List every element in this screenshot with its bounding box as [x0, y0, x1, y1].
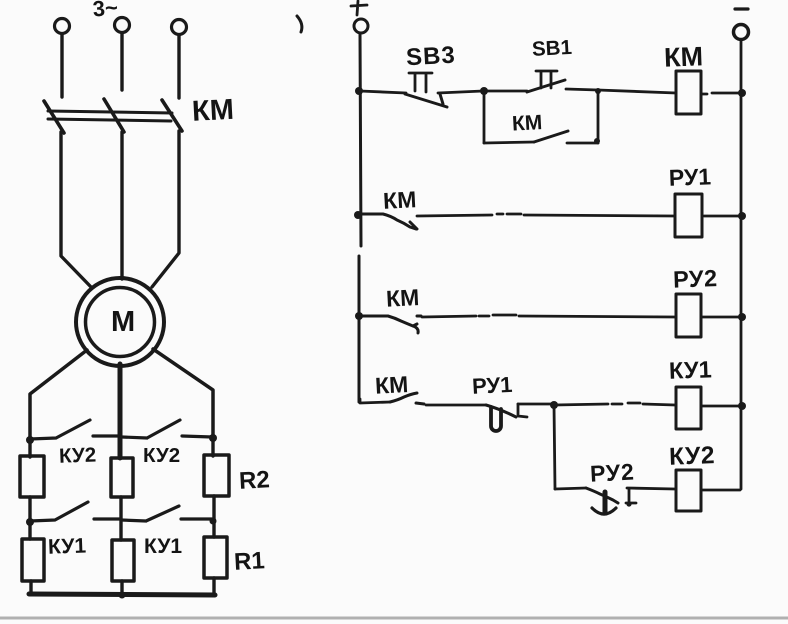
- svg-text:РУ1: РУ1: [668, 163, 711, 190]
- node left KU1: [26, 518, 34, 526]
- svg-text:КМ: КМ: [385, 284, 420, 312]
- label KM (rung2 contact): [382, 186, 417, 214]
- wire columns to bottom bus: [31, 578, 214, 595]
- contact RU1 fixed hook: [518, 404, 527, 417]
- svg-text:КМ: КМ: [382, 186, 417, 214]
- contact RU2 delay actuator: [603, 492, 608, 513]
- terminal L2: [115, 18, 130, 33]
- svg-text:КМ: КМ: [191, 94, 234, 128]
- node right KU2: [209, 434, 217, 442]
- wire rung4 d: [554, 403, 675, 405]
- contactor KM pole 3 blade: [162, 100, 182, 131]
- label KM (aux contact): [511, 111, 542, 136]
- wire rung5 b: [627, 488, 675, 489]
- wire rung1 c: [484, 90, 527, 93]
- wire rung2 a: [417, 214, 675, 216]
- label RU1 (delay contact): [471, 372, 513, 399]
- wire left rail: [359, 33, 361, 402]
- svg-text:РУ1: РУ1: [471, 372, 513, 399]
- coil KU2: [676, 470, 701, 511]
- wire rung1 e: [598, 90, 676, 93]
- contact KM rung4: [390, 393, 424, 404]
- label KU2 (left): [59, 443, 97, 467]
- wire rung1 b: [438, 91, 483, 93]
- node rung3 right: [738, 313, 746, 321]
- coil KM: [676, 71, 701, 114]
- wire right rail: [740, 40, 743, 489]
- node bottom middle: [119, 592, 126, 599]
- wire motor to right column: [153, 349, 213, 440]
- node rung2 right: [738, 212, 746, 220]
- contact RU1 delay blade: [486, 405, 516, 417]
- svg-text:КУ2: КУ2: [143, 444, 180, 467]
- node rung1 left: [355, 87, 363, 95]
- pushbutton SB1 contact blade: [527, 80, 565, 92]
- wire rung4 b: [426, 404, 486, 407]
- svg-text:РУ2: РУ2: [673, 265, 718, 293]
- svg-text:КУ2: КУ2: [669, 442, 716, 471]
- resistor R1 (left): [22, 539, 44, 581]
- wire branch down left: [483, 91, 486, 143]
- contact KU2 (middle): [122, 420, 212, 438]
- node rung4 right: [738, 402, 746, 410]
- coil RU1: [675, 194, 702, 237]
- label − (polarity): [735, 7, 748, 10]
- wire rung4 a: [360, 399, 390, 403]
- label SB1: [531, 36, 572, 61]
- contact KU2 (left): [30, 420, 119, 439]
- wire rung3 b: [701, 316, 742, 319]
- label + (polarity): [351, 1, 367, 15]
- wire motor to middle column: [118, 364, 123, 458]
- wire rung2 b: [704, 215, 742, 218]
- label SB3: [405, 42, 456, 72]
- svg-text:R1: R1: [233, 547, 265, 576]
- wire rung4 c: [518, 403, 553, 406]
- label KM (rung3 contact): [385, 284, 420, 312]
- wire L1 drop: [60, 34, 63, 97]
- svg-text:РУ2: РУ2: [589, 458, 635, 486]
- svg-text:КУ1: КУ1: [48, 534, 87, 558]
- svg-text:КМ: КМ: [664, 41, 704, 72]
- contact KU1 (middle): [121, 506, 212, 521]
- coil KU1: [676, 387, 701, 429]
- contact RU1 delay actuator: [491, 407, 501, 431]
- resistor R1 (middle): [112, 540, 134, 581]
- svg-text:КУ1: КУ1: [669, 356, 713, 383]
- svg-text:КМ: КМ: [374, 371, 409, 399]
- wire branch down right: [597, 90, 600, 143]
- label R2: [238, 466, 270, 495]
- node branch corner: [594, 138, 600, 144]
- wire bottom bus: [29, 594, 215, 595]
- wire pole2 to motor: [120, 132, 123, 279]
- contactor KM linkage bar: [48, 111, 172, 121]
- label KM (rung4 contact): [374, 371, 409, 399]
- node left KU2: [26, 436, 34, 444]
- wire L2 drop: [120, 33, 123, 90]
- wire branch bottom a: [484, 142, 534, 143]
- pushbutton SB1 plunger: [536, 71, 557, 88]
- label KU2 (middle): [143, 444, 180, 467]
- wire rung5 a: [555, 488, 586, 489]
- label 3~ (supply): [92, 0, 119, 21]
- label RU1 (coil): [668, 163, 711, 190]
- label KM (contactor): [191, 94, 234, 128]
- wire rung5 c: [701, 489, 740, 492]
- svg-text:SB3: SB3: [405, 42, 456, 72]
- coil RU2: [676, 294, 701, 337]
- resistor R2 (middle): [111, 458, 133, 497]
- contactor KM pole 2 blade: [104, 99, 124, 132]
- contact KM aux blade: [534, 131, 568, 142]
- terminal +: [354, 19, 368, 33]
- wire column stubs above R2: [30, 441, 213, 457]
- motor M: [76, 278, 164, 366]
- wire motor to left column: [30, 350, 87, 442]
- wire rung1 d: [566, 89, 598, 90]
- node rung4 branch: [550, 401, 558, 409]
- label KU2 (coil): [669, 442, 716, 471]
- wire pole3 to motor: [152, 131, 179, 287]
- svg-text:КУ1: КУ1: [144, 535, 182, 558]
- stray mark: [297, 16, 302, 32]
- terminal L1: [55, 19, 70, 34]
- wire rung1 f: [701, 93, 742, 94]
- wire branch bottom b: [567, 142, 598, 145]
- node rung1 right: [738, 89, 746, 97]
- label KU1 (left): [48, 534, 87, 558]
- label RU2 (delay contact): [589, 458, 635, 486]
- svg-text:М: М: [111, 306, 135, 338]
- label RU2 (coil): [673, 265, 718, 293]
- contact KM rung3: [359, 316, 421, 333]
- wire rung1 a: [360, 91, 406, 93]
- resistor R2 (right): [204, 455, 229, 496]
- label KU1 (coil): [669, 356, 713, 383]
- svg-text:КМ: КМ: [511, 111, 542, 136]
- node rung1 branch left: [480, 87, 488, 95]
- svg-text:3~: 3~: [92, 0, 119, 21]
- terminal L3: [172, 20, 187, 35]
- wire columns between R2 and KU1: [30, 496, 214, 540]
- contact KU1 (left): [30, 502, 121, 521]
- svg-text:R2: R2: [238, 466, 270, 495]
- node right KU1: [210, 518, 217, 525]
- node rung3 left: [355, 312, 363, 320]
- node rung1 branch right: [595, 88, 601, 94]
- wire pole1 to motor: [61, 132, 91, 287]
- contact RU2 fixed hook: [626, 489, 636, 503]
- resistor R1 (right): [204, 537, 227, 578]
- wire L3 drop: [177, 35, 180, 98]
- wire rung3 a: [422, 315, 675, 317]
- pushbutton SB3 plunger: [409, 73, 432, 92]
- contact RU2 delay blade: [586, 488, 618, 503]
- label KU1 (middle): [144, 535, 182, 558]
- resistor R2 (left): [20, 456, 44, 497]
- terminal −: [734, 25, 749, 40]
- svg-text:SB1: SB1: [531, 36, 572, 61]
- contactor KM pole 1 blade: [44, 101, 64, 133]
- contact KM rung2: [358, 214, 417, 229]
- svg-text:КУ2: КУ2: [59, 443, 97, 467]
- wire rung4 e: [701, 405, 741, 408]
- label R1: [233, 547, 265, 576]
- pushbutton SB3 contact blade: [405, 94, 447, 107]
- wire rung5 drop: [554, 405, 555, 489]
- node rung2 left: [354, 211, 362, 219]
- label KM (coil): [664, 41, 704, 72]
